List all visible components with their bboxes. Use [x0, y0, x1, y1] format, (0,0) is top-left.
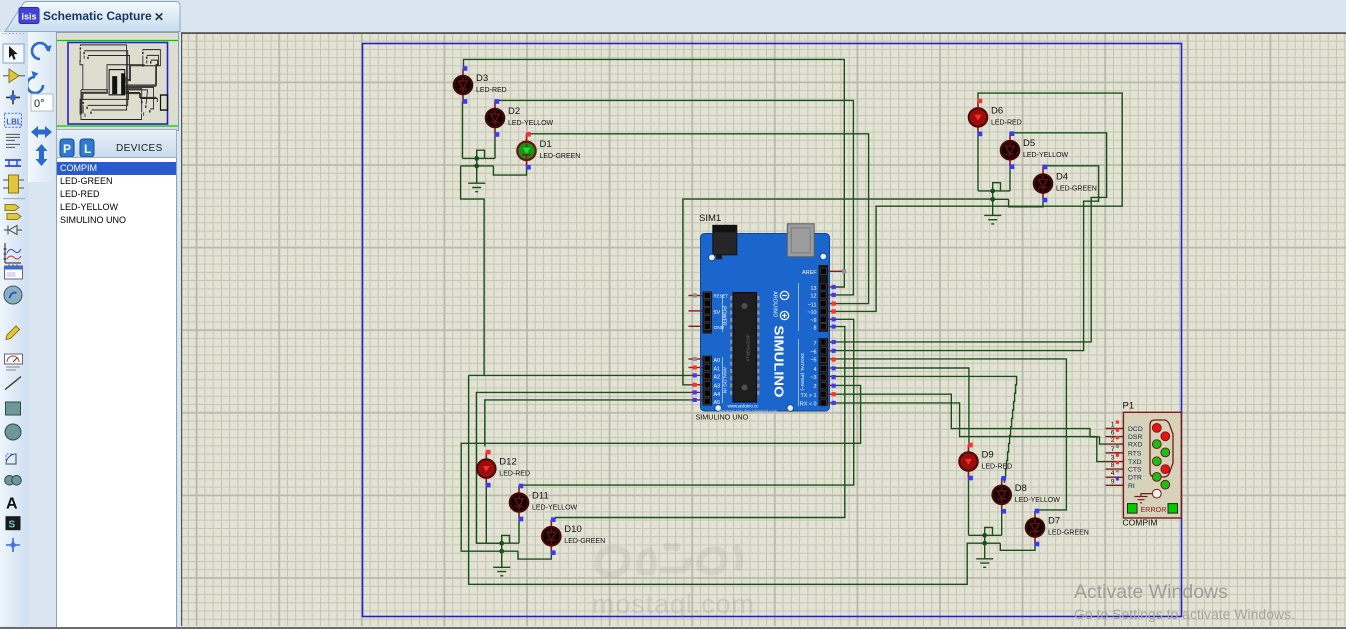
led D2 [486, 99, 554, 137]
svg-text:LED-GREEN: LED-GREEN [540, 153, 581, 160]
svg-text:8: 8 [814, 325, 817, 331]
svg-text:ERROR: ERROR [1141, 505, 1167, 514]
svg-text:RXD: RXD [1128, 442, 1142, 449]
svg-text:7: 7 [814, 341, 817, 347]
svg-text:TXD: TXD [1128, 459, 1142, 466]
svg-text:A0: A0 [714, 358, 721, 364]
svg-text:ANALOG IN: ANALOG IN [722, 367, 728, 394]
wire A5 to D12 anode [485, 400, 691, 447]
wire top-right node bar1 [978, 190, 1010, 192]
led D1 [517, 132, 580, 170]
svg-text:D5: D5 [1023, 138, 1035, 149]
wire bottom-right dots link [984, 535, 986, 543]
wire D5 anode to pin7 [835, 133, 1106, 342]
svg-text:AREF: AREF [802, 270, 817, 276]
svg-text:~10: ~10 [807, 310, 816, 316]
wire top-left node bar2 [461, 165, 494, 167]
svg-text:2: 2 [814, 384, 817, 390]
svg-text:7: 7 [1111, 446, 1115, 453]
wire bottom-left dots link [501, 543, 503, 551]
svg-text:3: 3 [1111, 455, 1115, 462]
watermark mostaql [598, 545, 740, 576]
svg-text:~3: ~3 [810, 375, 816, 381]
svg-text:5V: 5V [714, 310, 721, 316]
svg-text:Schematic Capture: Schematic Capture [43, 9, 152, 23]
wire D8 cathode [1001, 511, 1003, 536]
svg-text:ARDUINO: ARDUINO [772, 291, 778, 318]
wire D2 cathode [494, 135, 496, 158]
P1 pin numbers [1111, 422, 1115, 486]
right pin stubs [828, 271, 844, 403]
wire D9 cathode [968, 444, 970, 535]
svg-text:D4: D4 [1056, 172, 1068, 183]
wire bottom-left node bar1 [476, 542, 519, 544]
wire bottom-left node bump [502, 535, 510, 543]
wire top-right dots link [992, 191, 994, 199]
P1 pin stubs [1106, 429, 1124, 486]
svg-text:DTR: DTR [1128, 475, 1142, 482]
wire pin2 long net [461, 385, 860, 551]
svg-text:COMPIM: COMPIM [1123, 518, 1158, 528]
wire TX pin1 to P1 RXD [835, 394, 1106, 444]
ground top-left [468, 166, 485, 192]
svg-text:D2: D2 [508, 106, 520, 117]
svg-text:LED-GREEN: LED-GREEN [1048, 530, 1089, 537]
wire D12 cathode [485, 485, 487, 543]
right labels [800, 270, 817, 408]
P1 internal ground [1135, 494, 1153, 503]
wire D10 cathode jog [518, 551, 551, 559]
junction bottom-left 1 [499, 541, 504, 546]
wire bottom-left node bar2 [502, 550, 518, 552]
svg-text:RX < 0: RX < 0 [800, 402, 817, 408]
svg-text:mostaql.com: mostaql.com [592, 589, 754, 619]
junction bottom-right 1 [982, 533, 987, 538]
wire A2 net horizontal [469, 374, 691, 376]
svg-text:LED-YELLOW: LED-YELLOW [532, 505, 578, 512]
junction top-left 1 [474, 156, 479, 161]
led D9 [959, 443, 1012, 481]
svg-text:12: 12 [811, 294, 817, 300]
wire D11 cathode [518, 520, 520, 544]
wire D3 cathode [462, 102, 464, 159]
svg-text:P1: P1 [1123, 401, 1135, 412]
svg-text:~6: ~6 [810, 350, 816, 356]
svg-text:~9: ~9 [810, 318, 816, 324]
ground bottom-right [976, 543, 993, 567]
wire A2 to bottom area [469, 375, 985, 584]
wire D8 anode to pin3 (diagonal) [835, 376, 1016, 482]
wire D4 anode to pin6 [835, 166, 1098, 351]
compim P1 [1106, 401, 1182, 528]
junction top-right 1 [990, 189, 995, 194]
svg-text:LBL: LBL [6, 117, 22, 126]
svg-text:D12: D12 [499, 457, 516, 468]
svg-text:DSR: DSR [1128, 434, 1142, 441]
svg-text:4: 4 [1111, 470, 1115, 477]
wire bottom-right node bump [985, 527, 993, 535]
svg-text:LED-GREEN: LED-GREEN [1056, 186, 1097, 193]
svg-text:6: 6 [1111, 430, 1115, 437]
left labels [714, 294, 729, 407]
svg-text:D9: D9 [982, 450, 994, 461]
svg-text:D6: D6 [991, 105, 1003, 116]
svg-text:D7: D7 [1048, 516, 1060, 527]
sheet border [363, 44, 1182, 617]
left power header [703, 292, 713, 334]
svg-text:A2: A2 [714, 374, 721, 380]
wire bottom-right node bar1 [969, 534, 1002, 536]
led D12 [477, 450, 530, 488]
wire D7 cathode jog [1000, 543, 1035, 550]
svg-text:RI: RI [1128, 483, 1135, 490]
wire top-right node bar2 [993, 198, 1009, 200]
svg-text:SIMULINO UNO: SIMULINO UNO [696, 413, 749, 422]
svg-text:DEVICES: DEVICES [116, 143, 163, 154]
svg-text:RESET: RESET [714, 294, 729, 299]
wire D3 anode to pin13 [464, 59, 845, 287]
dip chip [730, 293, 760, 403]
svg-text:LED-RED: LED-RED [991, 119, 1022, 126]
svg-text:13: 13 [811, 286, 817, 292]
right upper header [819, 265, 829, 332]
svg-text:ATMEGA328P: ATMEGA328P [746, 334, 751, 361]
svg-text:P: P [63, 142, 71, 156]
wire top-left node to A2 [461, 166, 485, 376]
junction top-right 2 [990, 197, 995, 202]
svg-text:SIMULINO: SIMULINO [772, 326, 787, 398]
error leds [1128, 504, 1138, 513]
wire bottom-right node bar2 [985, 542, 1001, 544]
wire D2 anode to pin12 [495, 100, 853, 295]
led D11 [510, 484, 578, 522]
wire RX pin0 to P1 TXD [835, 403, 1106, 462]
ground top-right [984, 199, 1001, 224]
wire D6 anode to pin10 [835, 93, 1122, 311]
svg-text:~11: ~11 [808, 302, 817, 308]
svg-text:A: A [6, 496, 18, 513]
svg-text:D11: D11 [532, 491, 549, 502]
wire top-right D6 cathode [977, 134, 979, 191]
svg-text:TX > 1: TX > 1 [800, 393, 816, 399]
DB9 outline [1150, 420, 1173, 477]
wire pin8 to D10 anode [555, 327, 844, 519]
svg-text:1: 1 [1111, 422, 1115, 429]
svg-text:POWER: POWER [721, 306, 727, 326]
wire D7 anode to pin5 [835, 359, 1066, 511]
led D6 [969, 99, 1022, 137]
svg-text:LED-RED: LED-RED [499, 471, 530, 478]
junction bottom-left 2 [499, 549, 504, 554]
svg-text:DCD: DCD [1128, 426, 1143, 433]
svg-text:✕: ✕ [154, 10, 164, 24]
led D4 [1034, 165, 1097, 203]
svg-text:LED-RED: LED-RED [476, 87, 507, 94]
led D5 [1001, 131, 1069, 169]
wire A4 to bottom-left node [476, 392, 690, 543]
wire D4 cathode jog [1009, 199, 1043, 207]
svg-text:LED-YELLOW: LED-YELLOW [1015, 497, 1061, 504]
wire D5 cathode [1009, 167, 1011, 191]
svg-text:A4: A4 [714, 392, 721, 398]
wire A3 to top-right node [683, 199, 993, 385]
wire top-left dots link [476, 158, 478, 166]
led D10 [542, 517, 605, 555]
svg-text:D10: D10 [564, 524, 581, 535]
right pin pads [832, 269, 847, 405]
svg-text:8: 8 [1111, 462, 1115, 469]
left pads [693, 293, 697, 402]
wire top-right node bump [993, 183, 1001, 191]
wire D9 anode to pin4 [835, 368, 969, 444]
svg-text:RTS: RTS [1128, 450, 1142, 457]
svg-text:CTS: CTS [1128, 467, 1142, 474]
led D3 [454, 66, 507, 104]
svg-text:SIM1: SIM1 [699, 213, 721, 224]
svg-text:L: L [84, 142, 91, 156]
svg-text:D8: D8 [1015, 483, 1027, 494]
right lower header [819, 338, 829, 406]
ground bottom-left [493, 551, 510, 576]
svg-text:LED-GREEN: LED-GREEN [564, 538, 605, 545]
svg-text:D1: D1 [540, 139, 552, 150]
svg-text:LED-YELLOW: LED-YELLOW [508, 120, 554, 127]
junction bottom-right 2 [982, 541, 987, 546]
P1 signal labels [1128, 426, 1143, 490]
svg-text:D3: D3 [476, 73, 488, 84]
svg-text:9: 9 [1111, 478, 1115, 485]
led D7 [1026, 509, 1089, 547]
svg-text:isis: isis [21, 12, 36, 22]
wire top-left node bump [477, 150, 485, 158]
wire top-left node bar1 [463, 157, 496, 159]
svg-text:DIGITAL (PWM~): DIGITAL (PWM~) [799, 353, 805, 391]
DB9 leds [1152, 424, 1169, 499]
svg-text:S: S [9, 520, 16, 531]
svg-text:2: 2 [1111, 437, 1115, 444]
svg-text:4: 4 [814, 367, 817, 373]
led D8 [993, 476, 1061, 514]
svg-text:A5: A5 [714, 400, 721, 406]
arduino U1 SIMULINO UNO [689, 213, 847, 422]
wire D1 anode to pin11 [527, 134, 869, 304]
svg-text:GND: GND [714, 325, 725, 331]
svg-text:LED-RED: LED-RED [982, 464, 1013, 471]
junction top-left 2 [474, 164, 479, 169]
left analog header [703, 356, 713, 406]
wire D1 cathode jog [493, 166, 526, 175]
left pin stubs [689, 296, 703, 400]
svg-text:A3: A3 [714, 384, 721, 390]
svg-text:LED-YELLOW: LED-YELLOW [1023, 152, 1069, 159]
svg-text:~5: ~5 [810, 358, 816, 364]
wire pin9 to D11 anode [523, 319, 854, 486]
svg-text:A1: A1 [714, 366, 721, 372]
svg-text:0°: 0° [34, 98, 45, 110]
